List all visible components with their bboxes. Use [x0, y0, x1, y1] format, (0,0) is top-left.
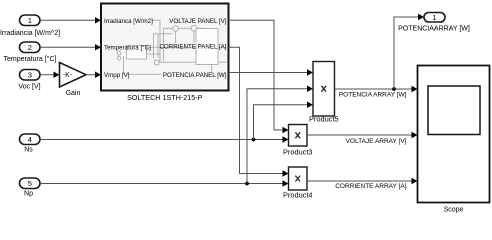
svg-text:Product5: Product5	[309, 115, 339, 124]
svg-text:2: 2	[28, 43, 32, 52]
wire gain to subsystem in3	[86, 72, 101, 78]
svg-text:1: 1	[28, 16, 32, 25]
product block Product4	[289, 167, 308, 190]
svg-text:5: 5	[28, 179, 32, 188]
subsystem preview circuit (faint)	[117, 20, 226, 74]
inport 1 (Irradiancia)	[20, 15, 41, 26]
svg-text:Temperatura [°C]: Temperatura [°C]	[4, 55, 57, 63]
junction POTENCIA ARRAY	[392, 87, 396, 91]
wire junction to outport 1	[394, 14, 424, 89]
wire port2 to subsystem in2	[40, 44, 101, 50]
wire Product4 out to Scope in3	[307, 178, 418, 184]
svg-text:Voc [V]: Voc [V]	[18, 84, 40, 91]
wire port1 to subsystem in1	[40, 17, 101, 23]
wire Ns to Product3 in2	[40, 136, 289, 142]
svg-text:Scope: Scope	[444, 207, 464, 214]
svg-text:-K-: -K-	[63, 72, 73, 79]
junction Ns branch	[252, 138, 256, 142]
svg-text:Np: Np	[24, 191, 33, 198]
svg-text:Vmpp [V]: Vmpp [V]	[104, 72, 130, 79]
inport 2 (Temperatura)	[20, 42, 41, 53]
outport 1 (POTENCIAARRAY)	[424, 13, 445, 23]
wire Product3 out to Scope in2	[307, 132, 418, 138]
inport 4 (Ns)	[20, 134, 41, 145]
svg-text:CORRIENTE PANEL [A]: CORRIENTE PANEL [A]	[159, 44, 226, 51]
svg-text:Product3: Product3	[283, 148, 313, 157]
wire Ns branch to Product5 in3	[254, 102, 314, 140]
svg-text:Irradiancia [W/m^2]: Irradiancia [W/m^2]	[0, 30, 60, 37]
wire Np branch to Product5 in2	[247, 86, 313, 184]
inport 3 (Voc)	[20, 70, 41, 81]
svg-text:Temperatura [°C]: Temperatura [°C]	[104, 45, 151, 52]
svg-text:POTENCIA ARRAY [W]: POTENCIA ARRAY [W]	[339, 92, 407, 99]
wire POTENCIA PANEL to Product5 in1	[229, 69, 314, 75]
inport 5 (Np)	[20, 178, 41, 189]
svg-text:4: 4	[28, 135, 32, 144]
wire VOLTAJE PANEL to Product3 in1	[229, 20, 289, 133]
svg-text:Irradianca [W/m2]: Irradianca [W/m2]	[104, 18, 153, 25]
wire Product5 out to Scope in1	[335, 86, 418, 92]
scope block Scope	[418, 66, 490, 203]
svg-text:VOLTAJE ARRAY [V]: VOLTAJE ARRAY [V]	[346, 138, 407, 145]
junction Np branch	[245, 182, 249, 186]
product block Product5	[313, 62, 335, 117]
wire Np to Product4 in2	[40, 180, 289, 186]
subsystem input port labels	[104, 18, 153, 79]
svg-text:VOLTAJE PANEL [V]: VOLTAJE PANEL [V]	[169, 18, 226, 25]
svg-text:Gain: Gain	[66, 90, 81, 97]
svg-text:CORRIENTE ARRAY [A]: CORRIENTE ARRAY [A]	[335, 183, 406, 190]
svg-text:Ns: Ns	[24, 147, 33, 154]
product block Product3	[289, 125, 308, 147]
svg-text:POTENCIAARRAY [W]: POTENCIAARRAY [W]	[398, 26, 470, 33]
wire CORRIENTE PANEL to Product4 in1	[229, 47, 289, 176]
svg-text:3: 3	[28, 71, 32, 80]
gain block (Gain)	[60, 63, 87, 88]
svg-text:Product4: Product4	[283, 191, 313, 200]
wire port3 to gain	[40, 72, 60, 78]
subsystem SOLTECH 1STH-215-P	[101, 4, 229, 91]
svg-text:1: 1	[432, 13, 436, 22]
svg-text:POTENCIA PANEL [W]: POTENCIA PANEL [W]	[163, 72, 227, 79]
svg-text:SOLTECH 1STH-215-P: SOLTECH 1STH-215-P	[127, 93, 203, 102]
subsystem output port labels	[159, 18, 226, 79]
